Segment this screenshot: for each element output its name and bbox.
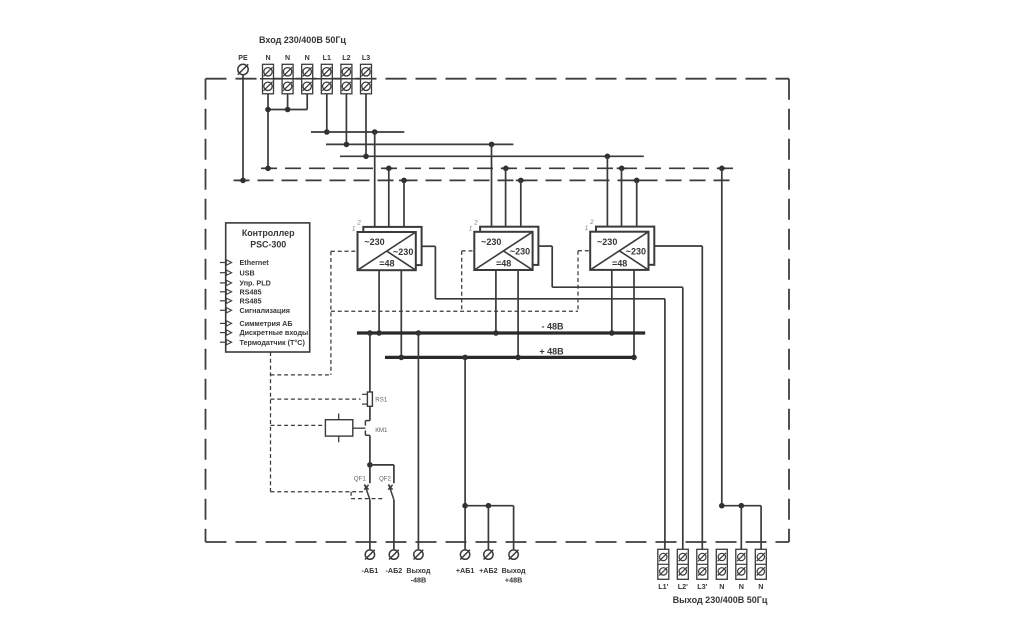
control wire: vertical at conv1 (dashed) [330, 251, 332, 375]
node: L3 terminal tap [363, 154, 369, 160]
node: +АБ2 tap [486, 503, 492, 509]
wire: RS1 to KM1 [369, 406, 371, 420]
wire: U1 AC output down [434, 246, 436, 298]
node: U1 -48V tap [376, 330, 382, 336]
wire: N input to U2 [505, 168, 507, 226]
enclosure dashed border (cabinet) [206, 79, 790, 542]
wire: L3 bus [340, 155, 644, 157]
converter U2 module 1 (front rect) [474, 232, 532, 270]
input terminal N (X2) [282, 64, 293, 94]
converter U2 module 2 (back rect) [480, 227, 538, 265]
node: QF branch junction [367, 462, 373, 468]
output terminal N [716, 549, 727, 579]
svg-text:Вход 230/400В 50Гц: Вход 230/400В 50Гц [259, 35, 346, 45]
node: L3 to converter U3 [605, 154, 611, 160]
output terminal Выход -48В [414, 550, 423, 559]
contactor KM1 contact [365, 421, 370, 436]
controller PSC-300 box [226, 223, 310, 352]
node: +48V branch junction [462, 503, 468, 509]
svg-text:1: 1 [585, 226, 588, 232]
svg-text:L1: L1 [323, 54, 331, 62]
svg-text:+АБ1: +АБ1 [456, 566, 475, 575]
control wire: control bus (dashed) [331, 310, 578, 312]
svg-text:N: N [758, 582, 763, 591]
controller port symbol Термодатчик (Т°С) [220, 340, 232, 345]
node: N to output terminals [719, 166, 725, 172]
wire: N3 output drop [760, 506, 762, 550]
svg-text:-48В: -48В [411, 576, 427, 585]
terminal PE [238, 64, 248, 74]
wire: PE input to U2 [520, 180, 522, 226]
control wire: link to controller (dashed) [271, 374, 331, 376]
contactor KM1 coil [325, 420, 352, 436]
wire: PE bus joint [238, 179, 248, 181]
output terminal N [736, 549, 747, 579]
svg-text:RS1: RS1 [375, 397, 388, 404]
RS1 sense tap upper [362, 393, 367, 395]
control wire: QF link down (dashed) [350, 492, 352, 499]
wire: U2 -48V output [495, 270, 497, 333]
wire: branch to QF2 [370, 464, 394, 466]
control wire: to breaker QF2 (dashed) [351, 498, 384, 500]
wire: U2 AC down to terminal L2' [682, 287, 684, 549]
svg-text:=48: =48 [379, 259, 394, 269]
controller port symbol Симметрия АБ [220, 321, 232, 326]
wire: N2 output drop [740, 506, 742, 550]
svg-text:Упр. PLD: Упр. PLD [240, 279, 271, 288]
wire: U2 +48V output [517, 270, 519, 357]
svg-text:-АБ1: -АБ1 [362, 566, 379, 575]
converter U2 diagonal [474, 232, 532, 270]
node: N terminal tap [265, 166, 271, 172]
svg-text:N: N [265, 54, 270, 62]
output terminal N [755, 549, 766, 579]
svg-text:Симметрия АБ: Симметрия АБ [240, 319, 293, 328]
wire: U1 -48V output [378, 270, 380, 333]
svg-text:L1': L1' [658, 582, 668, 591]
wire: U2 AC output right [538, 245, 552, 247]
node: PE to converter U1 [401, 178, 407, 184]
control wire: to contactor KM1 (dashed) [271, 424, 326, 426]
wire: PE input to U1 [403, 180, 405, 227]
svg-text:N: N [739, 582, 744, 591]
wire: N bus joint [501, 167, 511, 169]
controller port symbol Дискретные входы [220, 330, 232, 335]
output terminal L2' [677, 549, 688, 579]
control wire: U3 stub (dashed) [578, 250, 590, 252]
wire: phase input to U3 [606, 156, 608, 226]
breaker QF1 [364, 484, 370, 499]
svg-text:Термодатчик (Т°С): Термодатчик (Т°С) [240, 338, 306, 347]
control wire: to shunt RS1 (dashed) [271, 398, 361, 400]
wire: U1 AC down to terminal L1' [664, 299, 666, 550]
KM1 mechanical link [353, 427, 366, 429]
KM1 coil stub bottom [338, 436, 340, 442]
wire: +48V branch [465, 505, 513, 507]
svg-text:~230: ~230 [364, 237, 384, 247]
node: U1 +48V tap [399, 355, 405, 361]
control wire: to breaker QF1 (dashed) [271, 491, 366, 493]
input terminal N (X3) [302, 64, 313, 94]
controller port symbol USB [220, 270, 232, 275]
svg-text:QF2: QF2 [379, 475, 392, 482]
converter U2 half diagonal [503, 251, 532, 270]
wire: N bus down to output terminals [721, 168, 723, 505]
wire: N bus joint [263, 167, 273, 169]
node: N1-link junction [265, 107, 271, 113]
node: L1 terminal tap [324, 129, 330, 135]
output terminal L1' [658, 549, 669, 579]
node: U2 -48V tap [493, 330, 499, 336]
wire: QF2 to terminal -АБ2 [393, 500, 395, 550]
wire: L2 terminal down [345, 94, 347, 145]
wire: +48V output drop [513, 506, 515, 550]
wire: PE bus joint [399, 179, 409, 181]
svg-text:QF1: QF1 [354, 475, 367, 482]
wire: N bus joint [717, 167, 727, 169]
node: N to converter U3 [619, 166, 625, 172]
wire: QF1 drop [369, 465, 371, 483]
controller port symbol Сигнализация [220, 308, 232, 313]
wire: phase input to U1 [374, 132, 376, 227]
RS1 sense tap lower [362, 403, 367, 405]
svg-text:+ 48В: + 48В [539, 346, 564, 356]
node: N2 output tap [739, 503, 745, 509]
svg-text:- 48В: - 48В [541, 322, 564, 332]
wire: N link [268, 109, 307, 111]
wire: N1 terminal down [267, 94, 269, 169]
svg-text:Выход: Выход [502, 566, 526, 575]
output terminal +АБ1 [460, 550, 469, 559]
wire: +48V bus down [464, 357, 466, 549]
control wire: U2 riser (dashed) [461, 251, 463, 311]
svg-text:-АБ2: -АБ2 [386, 566, 403, 575]
KM1 coil stub top [338, 414, 340, 420]
wire: KM1 to QF junction [369, 435, 371, 465]
wire: N2 terminal down [287, 94, 289, 110]
svg-text:1: 1 [352, 227, 355, 233]
svg-text:~230: ~230 [626, 247, 646, 257]
wire: N bus joint [617, 167, 627, 169]
node: +48V output tap [462, 355, 468, 361]
svg-text:~230: ~230 [393, 247, 413, 257]
svg-text:RS485: RS485 [240, 287, 262, 296]
wire: PE input to U3 [636, 180, 638, 226]
svg-text:2: 2 [473, 220, 478, 226]
wire: U3 AC down to terminal L3' [701, 246, 703, 549]
wire: U3 AC route to L3' [654, 245, 702, 247]
output terminal Выход +48В [509, 550, 518, 559]
svg-text:PSC-300: PSC-300 [250, 240, 286, 250]
controller port symbol RS485 [220, 298, 232, 303]
wire: U2 AC output down [551, 246, 553, 287]
svg-text:1: 1 [469, 226, 472, 232]
output terminal -АБ2 [389, 550, 398, 559]
node: U2 +48V tap [515, 355, 521, 361]
bus -48V [357, 331, 645, 334]
svg-text:Выход: Выход [406, 566, 430, 575]
wire: L3 terminal down [365, 94, 367, 157]
wire: -48V bus to RS1 [369, 333, 371, 392]
converter U1 module 1 (front rect) [358, 232, 416, 270]
svg-text:~230: ~230 [597, 237, 617, 247]
node: N to converter U1 [386, 166, 392, 172]
wire: N input to U1 [388, 168, 390, 227]
control wire: U3 riser (dashed) [577, 251, 579, 311]
wire: N bus joint [384, 167, 394, 169]
node: PE to converter U3 [634, 178, 640, 184]
wire: U1 +48V output [400, 270, 402, 357]
converter U3 module 2 (back rect) [596, 227, 654, 265]
wire: +АБ2 drop [487, 506, 489, 550]
node: -48V to RS1 [367, 330, 373, 336]
node: -48V output tap [416, 330, 422, 336]
controller port symbol Упр. PLD [220, 280, 232, 285]
svg-text:N: N [719, 582, 724, 591]
svg-text:N: N [305, 54, 310, 62]
svg-text:PE: PE [238, 54, 248, 62]
wire: U1 AC route to L1' [435, 298, 665, 300]
control wire: U2 stub (dashed) [462, 250, 475, 252]
node: PE terminal tap [240, 178, 246, 184]
input terminal L1 (X4) [321, 64, 332, 94]
svg-text:+48В: +48В [505, 576, 522, 585]
node: L2 to converter U2 [489, 142, 495, 148]
breaker QF2 [388, 484, 394, 499]
output terminal +АБ2 [484, 550, 493, 559]
wire: U1 AC output right [422, 245, 436, 247]
control wire: controller drop (dashed) [270, 352, 272, 492]
node: L1 to converter U1 [372, 129, 378, 135]
wire: QF2 drop [393, 465, 395, 483]
converter U1 module 2 (back rect) [363, 227, 421, 265]
wire: N terminals branch [722, 505, 761, 507]
svg-text:L3': L3' [697, 582, 707, 591]
wire: U2 AC route to L2' [552, 286, 683, 288]
wire: PE bus (dashed) [234, 179, 734, 181]
wire: phase input to U2 [491, 144, 493, 226]
wire: U3 -48V output [611, 270, 613, 333]
wire: N input to U3 [621, 168, 623, 226]
svg-text:=48: =48 [496, 258, 511, 268]
svg-text:Контроллер: Контроллер [242, 228, 295, 238]
controller port symbol RS485 [220, 289, 232, 294]
svg-text:~230: ~230 [481, 237, 501, 247]
svg-text:2: 2 [589, 220, 594, 226]
input terminal N (X1) [263, 64, 274, 94]
node: N to converter U2 [503, 166, 509, 172]
wire: PE bus joint [516, 179, 526, 181]
node: N2-link junction [285, 107, 291, 113]
svg-text:КМ1: КМ1 [375, 427, 388, 434]
wire: L2 bus [326, 143, 513, 145]
converter U3 module 1 (front rect) [590, 232, 648, 270]
svg-text:2: 2 [356, 221, 361, 227]
wire: L1 terminal down [326, 94, 328, 132]
control wire: U1 stub (dashed) [331, 250, 358, 252]
input terminal L2 (X5) [341, 64, 352, 94]
svg-text:RS485: RS485 [240, 296, 262, 305]
svg-text:USB: USB [240, 268, 255, 277]
svg-text:N: N [285, 54, 290, 62]
output terminal -АБ1 [365, 550, 374, 559]
converter U1 half diagonal [387, 251, 416, 270]
controller port symbol Ethernet [220, 260, 232, 265]
input terminal L3 (X6) [361, 64, 372, 94]
converter U3 diagonal [590, 232, 648, 270]
wire: N bus (dashed) [261, 167, 735, 169]
output terminal L3' [697, 549, 708, 579]
wire: N3 terminal down [306, 94, 308, 110]
node: PE to converter U2 [518, 178, 524, 184]
svg-text:~230: ~230 [510, 247, 530, 257]
converter U3 half diagonal [619, 251, 648, 270]
svg-text:L2: L2 [342, 54, 350, 62]
svg-text:Выход 230/400В 50Гц: Выход 230/400В 50Гц [673, 595, 768, 605]
svg-text:=48: =48 [612, 258, 627, 268]
wire: L1 bus [311, 131, 404, 133]
node: U3 +48V tap [631, 355, 637, 361]
converter U1 diagonal [358, 232, 416, 270]
wire: terminal strip rail [260, 78, 372, 80]
svg-text:+АБ2: +АБ2 [479, 566, 498, 575]
node: N output junction [719, 503, 725, 509]
svg-text:Ethernet: Ethernet [240, 258, 270, 267]
wire: QF1 to terminal -АБ1 [369, 500, 371, 550]
wire: PE terminal to PE bus [242, 75, 244, 180]
shunt RS1 [367, 392, 372, 406]
wire: PE bus joint [632, 179, 642, 181]
node: U3 -48V tap [609, 330, 615, 336]
bus +48V [385, 356, 635, 359]
node: L2 terminal tap [344, 142, 350, 148]
svg-text:Дискретные входы: Дискретные входы [240, 328, 309, 337]
svg-text:L2': L2' [678, 582, 688, 591]
svg-text:Сигнализация: Сигнализация [240, 306, 290, 315]
wire: U3 +48V output [633, 270, 635, 358]
wire: -48V bus to output terminal [417, 333, 419, 549]
svg-text:L3: L3 [362, 54, 370, 62]
